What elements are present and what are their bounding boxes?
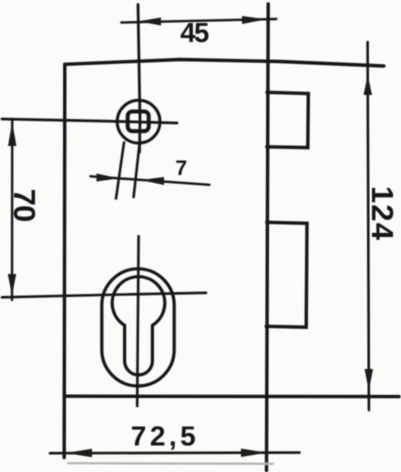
follower circle [117,100,160,143]
wire: body left edge [62,64,66,457]
wire: body bottom edge (extends right as extension line for 124) [64,395,399,399]
svg-text:70: 70 [7,189,42,222]
cylinder hole centerline vertical [137,236,138,406]
svg-text:45: 45 [180,17,209,48]
centerline vertical (through follower, extension for 45) [138,5,140,153]
svg-text:72,5: 72,5 [131,421,200,452]
svg-text:124: 124 [365,186,400,241]
extension lines (slanted) for 7 [116,142,140,199]
centerline horizontal (through follower, extension for 70) [2,119,177,123]
follower square hole [128,112,149,132]
dimension 7 line [91,174,210,186]
cylinder hole outer oval [102,269,174,386]
wire: body right edge (extends up for 45 dim and down for 72,5 dim) [267,4,269,471]
svg-text:7: 7 [175,157,187,180]
latch bolt (upper right protrusion) [267,92,309,147]
dimension 45 line [121,16,276,26]
dimension 70 line [8,119,17,300]
scan artifact: faint bottom line [68,462,273,465]
euro profile keyhole [112,277,165,375]
dimension 72,5 line [50,449,300,458]
cylinder hole centerline horizontal (extension for 70) [2,293,206,298]
wire: body top edge (extends right as extension line for 124) [65,60,384,67]
dimension 124 line [364,42,373,410]
dead bolt (lower right protrusion) [266,222,307,327]
